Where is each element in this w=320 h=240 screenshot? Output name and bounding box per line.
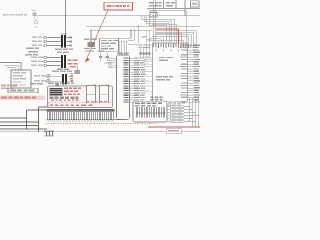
title strip divider 2 — [175, 0, 177, 9]
label under FL602 — [57, 68, 63, 70]
red annotation text row — [50, 104, 53, 106]
filter array FL601 — [61, 35, 63, 47]
connector pin P607 — [47, 74, 51, 78]
right bus vertical 4 — [197, 98, 199, 127]
key matrix baseline wire — [47, 119, 121, 121]
wire pin6 to filter — [47, 65, 61, 67]
labels above display box — [30, 83, 36, 85]
red dotted cut line — [46, 123, 157, 125]
capacitor C606 — [106, 53, 108, 62]
connector pin P602 — [44, 40, 47, 43]
bus wire from left y129 — [0, 128, 47, 130]
key matrix pin numbers row — [48, 121, 50, 122]
capacitor C610 — [140, 49, 142, 58]
wire osc to mid IC — [119, 37, 132, 39]
nested wire corner outer — [0, 62, 21, 64]
filter array FL602 — [61, 55, 63, 68]
component above display box — [56, 83, 60, 86]
filter array FL603 — [62, 74, 64, 85]
capacitor C611 — [143, 49, 145, 58]
junction L2 left end — [90, 30, 91, 31]
display red text rows — [64, 88, 68, 90]
title strip rule — [147, 8, 200, 10]
U601 part number text — [159, 57, 165, 58]
bus vertical wire B — [38, 107, 40, 132]
wires caps to L2 — [146, 30, 148, 48]
oscillator box text — [101, 40, 107, 41]
CN602 header text — [135, 103, 140, 105]
transistor Q601 — [76, 62, 78, 70]
bus wire top2 to comb — [39, 106, 48, 108]
filter output stub 1 — [66, 37, 69, 39]
crystal X601 — [88, 42, 96, 47]
net labels near bus fan — [142, 36, 147, 37]
bottom connector block — [44, 130, 54, 132]
connector pin label row 3 — [32, 45, 37, 46]
filter3 output stub 8 — [67, 80, 70, 82]
seven segment digit DS1 — [86, 86, 95, 103]
IC U601 body — [153, 43, 188, 101]
CN602 comb pins — [135, 107, 137, 117]
nested wire corner inner — [7, 66, 15, 68]
title strip divider 3 — [184, 0, 186, 9]
module top edge wire — [91, 29, 153, 31]
red supply wire bottom right — [148, 126, 200, 128]
key matrix header rows — [47, 109, 115, 111]
connector box CN602 — [133, 101, 167, 122]
label above FL603 — [52, 71, 59, 72]
test point TP601 — [34, 16, 36, 21]
connector pin label row 8 — [34, 80, 40, 81]
wire down from L2 at 138 — [137, 27, 139, 44]
module left edge wire — [90, 30, 92, 42]
connector pin P608 — [47, 79, 51, 83]
power connector strip — [8, 88, 38, 93]
address bus fan wires — [148, 40, 159, 42]
net label row top-left — [3, 14, 6, 15]
capacitor C613 — [149, 49, 151, 58]
wire pin4 to filter — [47, 57, 61, 59]
connector pin label row 5 — [31, 61, 37, 62]
connector pin P601 — [44, 36, 47, 39]
wire L2 long horizontal — [86, 26, 200, 28]
wire pin3 to filter — [47, 45, 61, 47]
wire L1 main horizontal — [37, 15, 200, 17]
wire pin1 to filter — [47, 37, 61, 39]
connector pin P605 — [44, 60, 47, 63]
bus wire top to comb — [27, 109, 48, 111]
wire down from module edge — [134, 30, 136, 40]
right bus vertical 3 — [194, 98, 196, 127]
connector pin label row 7 — [34, 75, 40, 76]
label above crystal — [84, 39, 89, 40]
U601 left side pins and labels — [150, 56, 153, 58]
U601 part label 2 — [156, 76, 162, 78]
power supply text — [13, 72, 20, 73]
red marks at FL603 — [70, 73, 73, 74]
bus wire from left y122 — [0, 121, 39, 123]
red trace vertical to IC — [178, 29, 180, 43]
U601 top pin number labels — [153, 44, 154, 47]
zoom note red box — [104, 2, 133, 10]
connector pin P603 — [44, 44, 47, 47]
resistor R621 — [167, 105, 170, 107]
connector pin label row 1 — [32, 37, 37, 38]
connector pin label row 2 — [32, 41, 37, 42]
connector pin P604 — [44, 56, 47, 59]
left net labels column — [26, 48, 34, 50]
ferrite bead FB601 on wire — [33, 13, 37, 16]
labels above resistors — [168, 102, 172, 103]
bus vertical wire A — [26, 110, 28, 129]
red net tags at FL602 — [68, 59, 72, 61]
pink highlight band — [0, 95, 45, 99]
bus wire from left y125.5 — [0, 125, 39, 127]
bus long vertical A — [152, 0, 154, 43]
right bus vertical 1 — [188, 98, 190, 122]
U602 right side pins and labels — [123, 58, 128, 59]
title strip divider 1 — [163, 0, 165, 9]
bus wire from left y118 — [0, 117, 27, 119]
display pin table dense block — [50, 88, 63, 89]
IC U602 body — [117, 55, 130, 120]
text between filters — [55, 49, 62, 51]
U602 label above — [117, 52, 123, 53]
U601 bottom-left pin labels — [151, 97, 154, 98]
wire down from L2 at 131 — [130, 30, 132, 38]
key matrix comb pins — [46, 112, 48, 119]
wire pin2 to filter — [47, 41, 61, 43]
resistor R623 — [167, 111, 170, 113]
wire vertical to filter — [65, 0, 67, 36]
resistor R625 — [167, 117, 170, 119]
zoom pointer red line — [86, 10, 109, 61]
red label left margin — [1, 85, 6, 87]
title text cell 2 — [166, 2, 170, 4]
right bus vertical 2 — [191, 98, 193, 127]
filter output stub 2 — [66, 41, 69, 43]
resistor R622 — [167, 108, 170, 110]
wire stub from strip — [184, 9, 186, 16]
filter3 output stub 7 — [67, 75, 70, 77]
wire pin8 to filter — [50, 80, 62, 82]
red trace horizontal — [156, 28, 179, 30]
resistor R626 — [167, 120, 170, 122]
wire pin5 to filter — [47, 61, 61, 63]
power supply box PS601 — [11, 70, 31, 88]
display symbol row — [50, 96, 54, 98]
CN602 pin text band — [136, 112, 166, 113]
red text in pink band — [1, 97, 7, 99]
capacitor C605 — [100, 53, 102, 62]
junction dots on L1 — [152, 15, 153, 16]
display module box — [48, 86, 113, 108]
U602 left side pins — [113, 57, 117, 59]
red ticks under digits — [86, 101, 89, 102]
capacitor C612 — [146, 49, 148, 58]
title text cell 1 — [149, 2, 154, 4]
U602 top pins — [118, 44, 120, 55]
wire pin7 to filter — [50, 75, 62, 77]
oscillator box — [100, 38, 119, 51]
filter output stub 3 — [66, 45, 69, 47]
component box on L1 — [150, 13, 157, 18]
connector pin P606 — [44, 64, 47, 67]
caps bank labels — [139, 44, 143, 45]
bottom-right component box — [166, 129, 181, 134]
connector pin label row 4 — [31, 57, 37, 58]
seven segment digit DS2 — [99, 86, 108, 103]
red dashed annotation box — [48, 103, 112, 108]
title small box — [191, 1, 200, 7]
zoom pointer arrowhead — [85, 57, 90, 62]
resistor R624 — [167, 114, 170, 116]
junction node on L1 — [65, 15, 67, 17]
nested wire corner mid — [4, 64, 18, 66]
U601 right side pins and labels — [188, 44, 194, 46]
bus long vertical B — [155, 0, 157, 43]
long bottom wire — [0, 131, 200, 133]
connector pin label row 6 — [31, 65, 37, 66]
